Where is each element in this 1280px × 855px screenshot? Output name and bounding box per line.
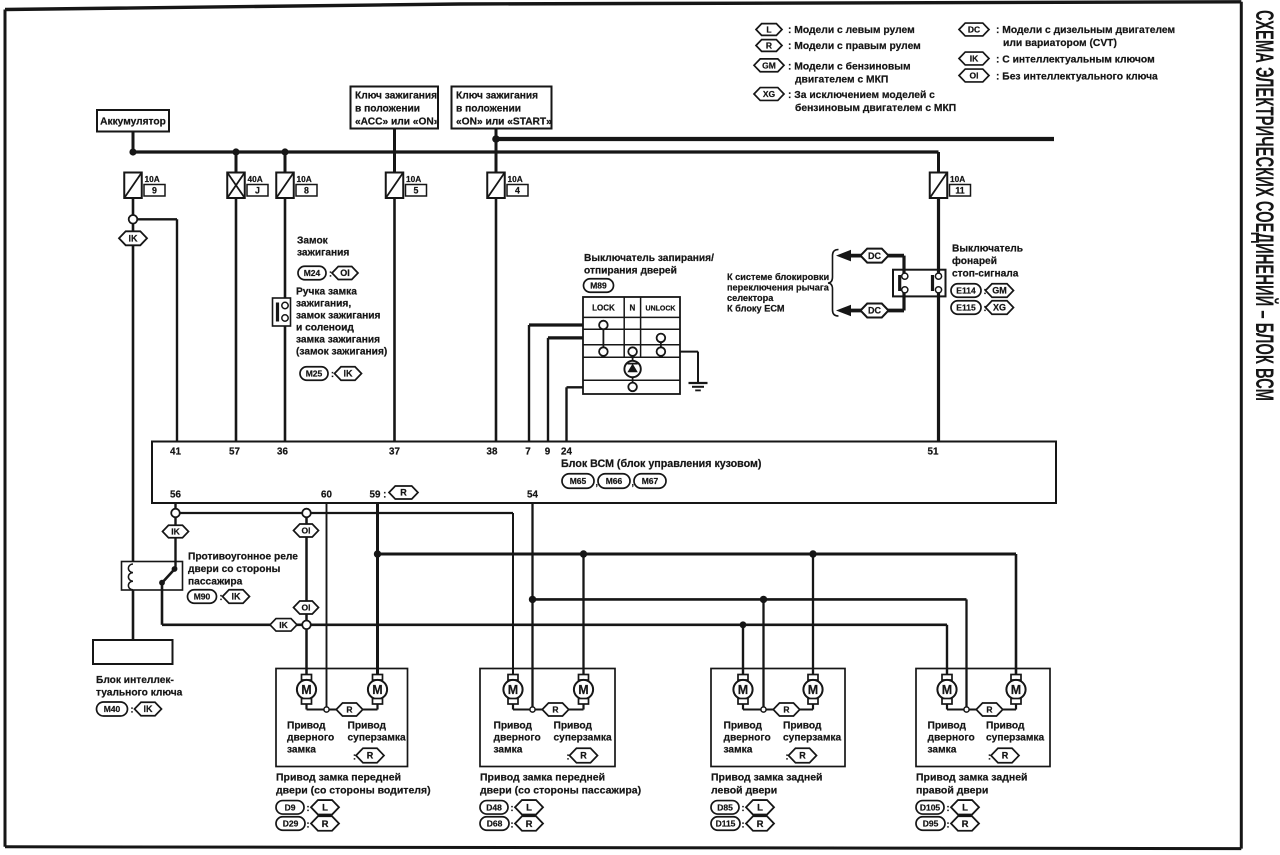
svg-text::: : — [947, 803, 950, 813]
svg-text:двигателем с МКП: двигателем с МКП — [795, 74, 888, 85]
svg-text:суперзамка: суперзамка — [554, 733, 612, 744]
svg-text:R: R — [580, 751, 587, 761]
svg-text:D9: D9 — [285, 802, 296, 812]
svg-text:R: R — [1002, 751, 1009, 761]
svg-text:M89: M89 — [590, 281, 607, 291]
svg-text:R: R — [962, 819, 969, 830]
svg-text:36: 36 — [277, 447, 288, 458]
svg-text::: : — [307, 819, 310, 829]
svg-text:замка: замка — [287, 745, 316, 756]
svg-text:DC: DC — [868, 251, 881, 261]
svg-text::: : — [786, 752, 789, 762]
svg-text:Противоугонное реле: Противоугонное реле — [188, 552, 298, 563]
svg-text:M25: M25 — [306, 369, 323, 379]
svg-text:41: 41 — [170, 447, 181, 458]
svg-text:L: L — [322, 803, 328, 814]
svg-text:Привод замка задней: Привод замка задней — [711, 772, 823, 784]
svg-text:замка зажигания: замка зажигания — [296, 335, 380, 346]
svg-text:R: R — [526, 819, 533, 830]
svg-text:правой двери: правой двери — [916, 784, 988, 796]
svg-text:: С интеллектуальным ключом: : С интеллектуальным ключом — [996, 54, 1155, 65]
svg-text:L: L — [766, 25, 771, 35]
svg-text:UNLOCK: UNLOCK — [646, 306, 676, 313]
svg-text:суперзамка: суперзамка — [986, 733, 1044, 744]
svg-text:переключения рычага: переключения рычага — [727, 283, 830, 293]
svg-text:Привод: Привод — [348, 721, 387, 732]
svg-text:стоп-сигнала: стоп-сигнала — [952, 269, 1019, 280]
svg-text:IK: IK — [344, 369, 354, 379]
svg-text:замка: замка — [494, 745, 523, 756]
svg-text:24: 24 — [561, 447, 572, 458]
svg-text:дверного: дверного — [928, 733, 975, 744]
svg-text:зажигания: зажигания — [297, 248, 349, 259]
svg-text:фонарей: фонарей — [952, 255, 997, 267]
svg-text:11: 11 — [955, 186, 964, 196]
svg-text:M: M — [808, 683, 818, 697]
svg-text:38: 38 — [487, 447, 498, 458]
svg-text:60: 60 — [321, 490, 332, 501]
svg-text:зажигания,: зажигания, — [296, 299, 351, 310]
svg-text:«АСС» или «ON»: «АСС» или «ON» — [355, 117, 440, 128]
svg-text:M24: M24 — [304, 268, 321, 278]
svg-text:XG: XG — [993, 303, 1006, 313]
svg-text:LOCK: LOCK — [592, 304, 615, 313]
svg-text:в положении: в положении — [355, 104, 420, 115]
svg-text::: : — [511, 819, 514, 829]
svg-text:R: R — [766, 41, 772, 51]
svg-text:M: M — [372, 683, 382, 697]
svg-text:R: R — [757, 819, 764, 830]
svg-text:: За исключением моделей с: : За исключением моделей с — [788, 90, 935, 101]
svg-text:7: 7 — [525, 447, 531, 458]
svg-text:: Модели с дизельным двигателе: : Модели с дизельным двигателем — [996, 25, 1175, 36]
svg-text:R: R — [400, 488, 407, 498]
svg-text:M: M — [301, 683, 311, 697]
svg-text:54: 54 — [527, 490, 538, 501]
svg-text:OI: OI — [302, 526, 311, 536]
svg-text:замка: замка — [928, 745, 957, 756]
svg-text:Привод: Привод — [287, 721, 326, 732]
svg-text::: : — [988, 752, 991, 762]
svg-text:D85: D85 — [717, 802, 733, 812]
svg-text:Блок ВСМ (блок управления кузо: Блок ВСМ (блок управления кузовом) — [561, 458, 762, 470]
svg-text:N: N — [630, 304, 636, 313]
svg-text:: Модели с бензиновым: : Модели с бензиновым — [788, 60, 911, 72]
svg-text:DC: DC — [968, 25, 980, 35]
svg-text:L: L — [526, 803, 532, 814]
svg-text:Привод: Привод — [986, 721, 1025, 732]
svg-text:Привод замка передней: Привод замка передней — [480, 772, 605, 784]
svg-text:«ON» или «START»: «ON» или «START» — [456, 117, 552, 128]
svg-text:10A: 10A — [950, 174, 965, 184]
svg-text:К системе блокировки: К системе блокировки — [727, 272, 829, 282]
svg-text:IK: IK — [129, 234, 139, 244]
svg-text:суперзамка: суперзамка — [348, 733, 406, 744]
svg-text:дверного: дверного — [724, 733, 771, 744]
svg-text:IK: IK — [279, 620, 288, 630]
svg-text::: : — [331, 369, 334, 379]
svg-text:10A: 10A — [406, 174, 421, 184]
svg-text:D68: D68 — [487, 819, 503, 829]
svg-text:IK: IK — [171, 527, 180, 537]
svg-text:двери (со стороны водителя): двери (со стороны водителя) — [276, 784, 431, 796]
svg-text:Ключ зажигания: Ключ зажигания — [456, 91, 538, 102]
svg-text::: : — [511, 803, 514, 813]
svg-text:и соленоид: и соленоид — [296, 323, 354, 334]
svg-text:Привод: Привод — [928, 721, 967, 732]
svg-text:40A: 40A — [248, 174, 263, 184]
svg-text:M: M — [578, 683, 588, 697]
svg-text:IK: IK — [970, 54, 979, 64]
svg-text:IK: IK — [144, 704, 154, 714]
svg-text:Блок интеллек-: Блок интеллек- — [96, 675, 174, 686]
svg-text:двери (со стороны пассажира): двери (со стороны пассажира) — [480, 784, 641, 796]
svg-text:Замок: Замок — [297, 236, 329, 247]
svg-text::: : — [742, 819, 745, 829]
svg-text:или вариатором (CVT): или вариатором (CVT) — [1003, 38, 1117, 49]
svg-text:4: 4 — [515, 186, 520, 196]
svg-text:Привод замка передней: Привод замка передней — [276, 772, 401, 784]
svg-text:GM: GM — [992, 286, 1007, 296]
svg-text:57: 57 — [229, 447, 240, 458]
svg-text:Привод: Привод — [724, 721, 763, 732]
svg-text:9: 9 — [545, 447, 551, 458]
svg-text:OI: OI — [302, 603, 311, 613]
svg-text:пассажира: пассажира — [188, 577, 243, 588]
svg-text:замка: замка — [724, 745, 753, 756]
svg-text:туального ключа: туального ключа — [96, 688, 183, 699]
svg-text:E115: E115 — [956, 303, 976, 313]
svg-text:D48: D48 — [486, 802, 502, 812]
svg-text:Выключатель запирания/: Выключатель запирания/ — [584, 253, 714, 264]
svg-text::: : — [742, 803, 745, 813]
svg-text:9: 9 — [152, 186, 157, 196]
svg-text:дверного: дверного — [287, 733, 334, 744]
svg-text:OI: OI — [340, 268, 350, 278]
svg-text:J: J — [255, 186, 260, 196]
svg-text:: Модели с левым рулем: : Модели с левым рулем — [788, 25, 915, 36]
svg-text:левой двери: левой двери — [711, 784, 777, 796]
svg-text:R: R — [986, 705, 992, 715]
svg-text:IK: IK — [232, 592, 242, 602]
svg-text:DC: DC — [868, 306, 881, 316]
svg-text:M: M — [1011, 683, 1021, 697]
svg-text:Привод: Привод — [494, 721, 533, 732]
svg-text:M: M — [942, 683, 952, 697]
svg-text:Ручка замка: Ручка замка — [296, 287, 357, 298]
svg-text:R: R — [552, 705, 558, 715]
svg-text::: : — [131, 705, 134, 715]
svg-text:D105: D105 — [920, 802, 941, 812]
svg-text:M66: M66 — [606, 476, 623, 486]
svg-text:Ключ зажигания: Ключ зажигания — [355, 91, 437, 102]
svg-text:Выключатель: Выключатель — [952, 244, 1023, 255]
svg-text:R: R — [367, 751, 374, 761]
svg-text:M90: M90 — [194, 592, 211, 602]
svg-text:M: M — [738, 683, 748, 697]
svg-text:M65: M65 — [570, 476, 587, 486]
svg-text:R: R — [799, 751, 806, 761]
svg-text:10A: 10A — [508, 174, 523, 184]
svg-text:D115: D115 — [716, 819, 736, 829]
svg-text:L: L — [757, 803, 763, 814]
svg-text:: Без интеллектуального ключа: : Без интеллектуального ключа — [996, 71, 1158, 82]
svg-text:8: 8 — [304, 186, 309, 196]
svg-text:суперзамка: суперзамка — [783, 733, 841, 744]
svg-text:Аккумулятор: Аккумулятор — [100, 117, 166, 128]
svg-text::: : — [353, 752, 356, 762]
svg-text:OI: OI — [970, 71, 979, 81]
svg-text:37: 37 — [389, 447, 400, 458]
svg-text:59 :: 59 : — [370, 490, 387, 501]
svg-text:СХЕМА ЭЛЕКТРИЧЕСКИХ СОЕДИНЕНИЙ: СХЕМА ЭЛЕКТРИЧЕСКИХ СОЕДИНЕНИЙ – БЛОК ВС… — [1250, 10, 1280, 401]
svg-text:отпирания дверей: отпирания дверей — [584, 266, 677, 277]
svg-text:E114: E114 — [956, 286, 976, 296]
svg-text:5: 5 — [414, 186, 419, 196]
svg-text:D95: D95 — [923, 819, 939, 829]
svg-text:Привод замка задней: Привод замка задней — [916, 772, 1028, 784]
svg-text:L: L — [962, 803, 968, 814]
svg-text:селектора: селектора — [727, 293, 774, 303]
svg-text:бензиновым двигателем с МКП: бензиновым двигателем с МКП — [795, 102, 956, 114]
svg-text:Привод: Привод — [554, 721, 593, 732]
svg-text:10A: 10A — [145, 174, 160, 184]
svg-text:51: 51 — [928, 447, 939, 458]
svg-text:дверного: дверного — [494, 733, 541, 744]
svg-text:GM: GM — [762, 60, 776, 70]
svg-text:M: M — [508, 683, 518, 697]
svg-text:двери со стороны: двери со стороны — [188, 564, 280, 575]
svg-text:R: R — [783, 705, 789, 715]
svg-text:(замок зажигания): (замок зажигания) — [296, 347, 387, 358]
svg-text::: : — [307, 803, 310, 813]
svg-text:: Модели с правым рулем: : Модели с правым рулем — [788, 41, 921, 52]
svg-text:Привод: Привод — [783, 721, 822, 732]
svg-text:К блоку ЕСМ: К блоку ЕСМ — [727, 304, 785, 314]
svg-text::: : — [567, 752, 570, 762]
svg-text:56: 56 — [170, 490, 181, 501]
svg-text:замок зажигания: замок зажигания — [296, 311, 381, 322]
svg-text:в положении: в положении — [456, 104, 521, 115]
svg-text:R: R — [346, 705, 352, 715]
svg-text:M40: M40 — [104, 704, 121, 714]
svg-text:D29: D29 — [283, 819, 299, 829]
svg-text:XG: XG — [763, 89, 776, 99]
svg-text::: : — [947, 819, 950, 829]
svg-text:M67: M67 — [642, 476, 659, 486]
svg-text:10A: 10A — [297, 174, 312, 184]
svg-text:R: R — [322, 819, 329, 830]
